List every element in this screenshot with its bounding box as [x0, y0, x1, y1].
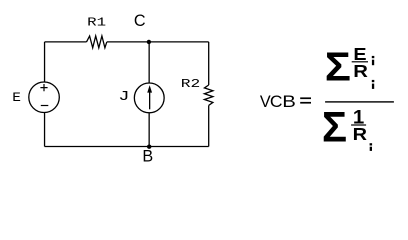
- node B junction dot: [147, 145, 151, 149]
- svg-text:C: C: [134, 12, 146, 30]
- svg-text:R: R: [353, 124, 368, 144]
- svg-text:B: B: [142, 148, 153, 166]
- plus sign: [40, 84, 47, 91]
- svg-text:E: E: [12, 90, 21, 105]
- voltage source E circle: [29, 82, 60, 113]
- svg-text:J: J: [118, 88, 129, 104]
- denominator subscript i: [370, 143, 373, 145]
- current source J circle: [134, 83, 164, 113]
- formula equals sign: [300, 97, 311, 99]
- svg-text:E: E: [353, 44, 366, 64]
- svg-text:R1: R1: [87, 16, 106, 30]
- wire bottom: [45, 146, 209, 148]
- svg-text:B: B: [282, 92, 296, 110]
- wire left vertical lower: [44, 113, 46, 147]
- numerator subscript i after E: [372, 56, 375, 58]
- svg-text:Σ: Σ: [325, 44, 351, 89]
- numerator subscript i after R: [372, 80, 375, 82]
- wire top-left segment: [45, 41, 87, 43]
- arrow of current source: [149, 91, 151, 110]
- node C junction dot: [147, 40, 151, 44]
- numerator small fraction line: [352, 61, 368, 62]
- resistor R2: [204, 85, 213, 105]
- wire top-right segment: [107, 41, 209, 43]
- denominator small fraction line: [351, 124, 366, 125]
- wire center vertical upper: [148, 42, 150, 83]
- wire right vertical upper: [208, 42, 210, 85]
- formula main fraction bar: [325, 101, 394, 102]
- minus sign: [41, 105, 49, 107]
- svg-text:C: C: [270, 92, 283, 110]
- resistor R1: [87, 36, 107, 48]
- wire right vertical lower: [208, 105, 210, 146]
- svg-text:R2: R2: [181, 78, 200, 92]
- svg-text:Σ: Σ: [322, 103, 347, 150]
- wire left vertical upper: [44, 42, 46, 82]
- svg-text:R: R: [353, 62, 368, 81]
- wire center vertical lower: [148, 113, 150, 146]
